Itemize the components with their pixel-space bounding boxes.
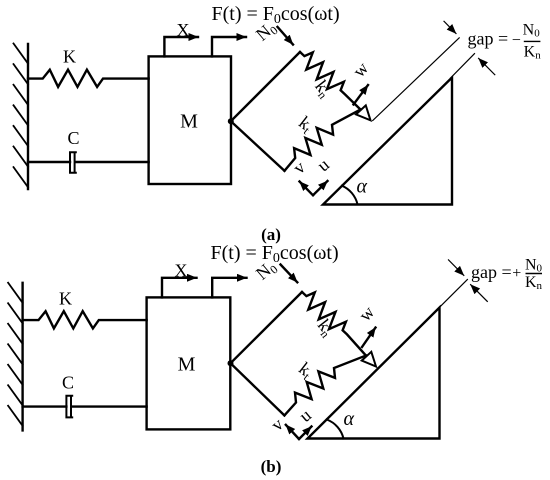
svg-text:F(t) = F0cos(ωt): F(t) = F0cos(ωt) — [211, 242, 339, 266]
svg-text:X: X — [175, 261, 188, 281]
svg-text:u: u — [313, 154, 333, 175]
svg-text:gap =: gap = — [471, 262, 512, 282]
svg-text:(b): (b) — [261, 457, 282, 476]
svg-text:kt: kt — [294, 112, 318, 137]
svg-text:C: C — [62, 373, 74, 393]
svg-text:X: X — [177, 20, 190, 40]
svg-text:α: α — [357, 176, 368, 198]
svg-text:kt: kt — [294, 358, 318, 383]
svg-text:M: M — [180, 111, 198, 133]
svg-text:α: α — [344, 408, 355, 430]
svg-text:w: w — [355, 302, 379, 325]
svg-text:gap =: gap = — [468, 29, 509, 49]
svg-text:w: w — [349, 58, 373, 81]
svg-text:kn: kn — [310, 76, 337, 101]
svg-text:u: u — [295, 405, 315, 426]
svg-text:v: v — [267, 414, 287, 435]
svg-text:Kn: Kn — [524, 43, 542, 61]
svg-text:N0: N0 — [525, 256, 543, 274]
svg-text:K: K — [63, 47, 76, 67]
svg-text:K: K — [59, 289, 72, 309]
svg-text:M: M — [178, 354, 196, 376]
svg-text:F(t) = F0cos(ωt): F(t) = F0cos(ωt) — [212, 3, 340, 27]
svg-text:v: v — [289, 157, 309, 178]
svg-text:−: − — [512, 32, 521, 49]
svg-text:Kn: Kn — [525, 274, 543, 292]
svg-text:kn: kn — [312, 315, 339, 340]
svg-text:C: C — [67, 128, 79, 148]
svg-text:N0: N0 — [523, 22, 541, 40]
svg-text:+: + — [512, 265, 521, 282]
